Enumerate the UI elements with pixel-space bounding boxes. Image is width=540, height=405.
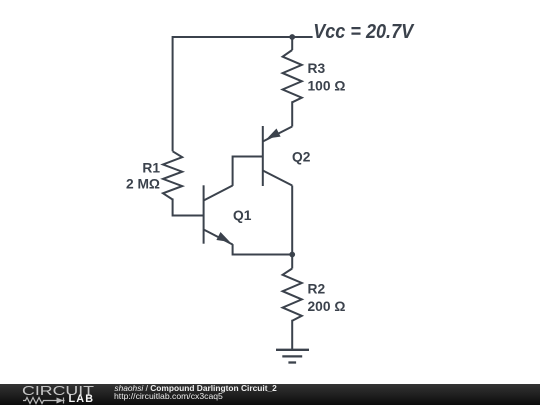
footer bar bbox=[0, 384, 540, 405]
wire Q2 collector down to output node bbox=[291, 186, 293, 255]
footer title line bbox=[114, 384, 276, 392]
wire R1 bottom to Q1 base bbox=[173, 199, 204, 216]
svg-text:R1: R1 bbox=[142, 160, 160, 175]
svg-text:100 Ω: 100 Ω bbox=[308, 79, 346, 94]
svg-text:200 Ω: 200 Ω bbox=[308, 299, 346, 314]
wire Q1 emitter to output node bbox=[233, 244, 293, 254]
wire output node to R2 bbox=[291, 255, 293, 269]
wire top rail from R1 branch to Vcc terminal bbox=[173, 36, 313, 38]
svg-text:R2: R2 bbox=[308, 282, 326, 297]
svg-text:Q2: Q2 bbox=[292, 150, 311, 165]
node Vcc junction bbox=[289, 34, 295, 40]
wire left branch from top rail down to R1 bbox=[172, 36, 174, 151]
wire Vcc junction to R3 bbox=[291, 36, 293, 50]
resistor R3 bbox=[283, 50, 302, 102]
svg-text:2 MΩ: 2 MΩ bbox=[126, 176, 160, 191]
transistor Q2 (PNP) bbox=[263, 126, 292, 186]
CircuitLab logo resistor+diode symbol bbox=[23, 396, 68, 405]
wire R3 bottom to Q2 emitter bbox=[291, 101, 293, 126]
svg-text:Q1: Q1 bbox=[233, 208, 252, 223]
svg-text:R3: R3 bbox=[308, 61, 326, 76]
wire R2 bottom to ground bbox=[291, 320, 293, 349]
node output junction bbox=[289, 252, 295, 258]
resistor R2 bbox=[283, 269, 302, 321]
ground bbox=[276, 350, 309, 363]
footer url line bbox=[114, 392, 223, 400]
svg-text:Vcc = 20.7V: Vcc = 20.7V bbox=[313, 21, 415, 43]
transistor Q1 (NPN) bbox=[204, 185, 233, 244]
CircuitLab logo wordmark CIRCUIT bbox=[22, 386, 94, 396]
wire Q1 collector to Q2 base bbox=[233, 157, 263, 186]
CircuitLab logo wordmark LAB bbox=[69, 395, 95, 404]
resistor R1 bbox=[163, 151, 182, 199]
